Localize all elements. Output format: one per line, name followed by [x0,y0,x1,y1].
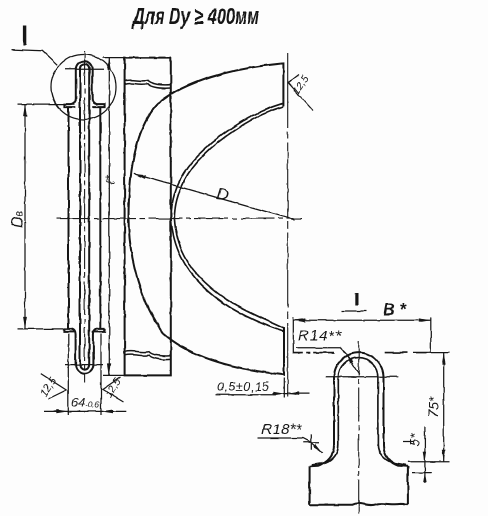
lens outer profile left half [64,61,104,373]
dimension B* line [293,319,431,321]
5* reference tick [403,441,414,443]
diameter D line [134,174,295,220]
svg-text:R14**: R14** [298,328,342,345]
svg-text:R18**: R18** [262,421,303,438]
surface finish mark 12,5 (left) [41,374,67,399]
dimension 0,5±0,15 line [273,393,310,395]
lens tip dome outer profile [310,353,408,467]
inner seat arc (inner line) [174,107,284,329]
svg-text:64-0,6: 64-0,6 [72,396,100,410]
detail body edges [310,466,408,504]
main horizontal centerline [57,218,303,220]
strip top break wavy lines [125,80,171,88]
dimension L* extension bottom [103,374,125,376]
flange top face line (dashed segments) [293,352,431,354]
svg-text:75*: 75* [427,396,442,417]
svg-text:D: D [216,185,230,204]
half-ring end faces [281,63,284,374]
svg-text:0,5±0,15: 0,5±0,15 [217,380,269,394]
svg-text:ℓ*: ℓ* [104,174,118,184]
svg-text:12,5: 12,5 [102,376,123,400]
surface finish mark 12,5 (right of 64) [103,377,124,402]
dimension 5* line [424,427,426,484]
dimension Dv extension top [18,103,76,105]
half-ring outer arc [129,64,284,375]
dimension B* extension lines [293,317,431,353]
flange face extension to 75* line [431,352,450,354]
dimension Dv line [24,104,26,329]
inner seat arc (outer line) [171,103,284,331]
dimension 0,5±0,15 extension line [283,378,285,398]
strip bottom break wavy lines [125,351,171,360]
detail vertical centerline [358,342,360,516]
detail callout label I (top left) [23,26,26,46]
svg-text:5*: 5* [407,433,423,447]
strip view (lens side view) outline [125,58,171,376]
lens bottom bulb center line [65,364,104,366]
lens top bulb center line [65,68,104,70]
lens inner double line [80,64,89,369]
dimension 64-0.6 line [44,410,126,412]
surface finish mark 12,5 (top right) [288,75,313,111]
detail circle I [51,55,116,120]
flange face vertical line [287,53,289,397]
dimension 75* line [443,353,445,462]
dimension Dv extension bottom [18,328,69,330]
svg-text:В*: В* [383,300,407,319]
dimension 64-0.6 extension lines [68,334,101,415]
lens axis centerline [84,51,86,383]
leader line to detail circle [12,50,58,65]
svg-text:12,5: 12,5 [290,73,311,97]
detail bottom edge with wave [310,503,408,505]
dimension L* line [108,58,110,376]
svg-text:Для Dу ≥ 400мм: Для Dу ≥ 400мм [132,3,259,29]
dimension L* extension top [103,57,125,59]
svg-text:Dв: Dв [10,210,27,227]
dimension 5* extension [412,472,431,474]
detail title I [355,293,358,306]
dimension 75* extension bottom [408,461,450,463]
lens tip dome inner line [312,358,406,465]
detail dome horizontal centerline [326,376,399,378]
